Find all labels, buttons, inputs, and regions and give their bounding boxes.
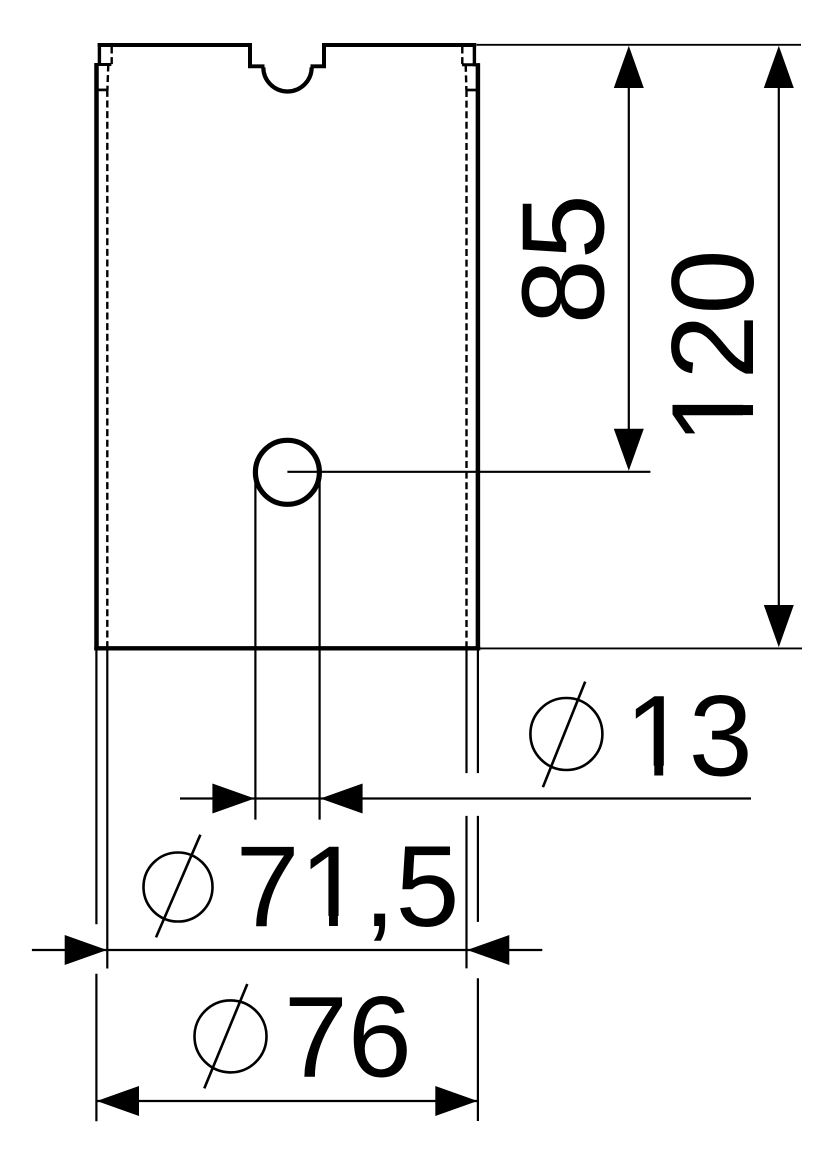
- svg-text:76: 76: [284, 974, 412, 1102]
- svg-text:13: 13: [625, 673, 753, 801]
- svg-text:120: 120: [647, 249, 778, 444]
- svg-text:85: 85: [498, 194, 629, 324]
- svg-text:71,5: 71,5: [236, 823, 460, 951]
